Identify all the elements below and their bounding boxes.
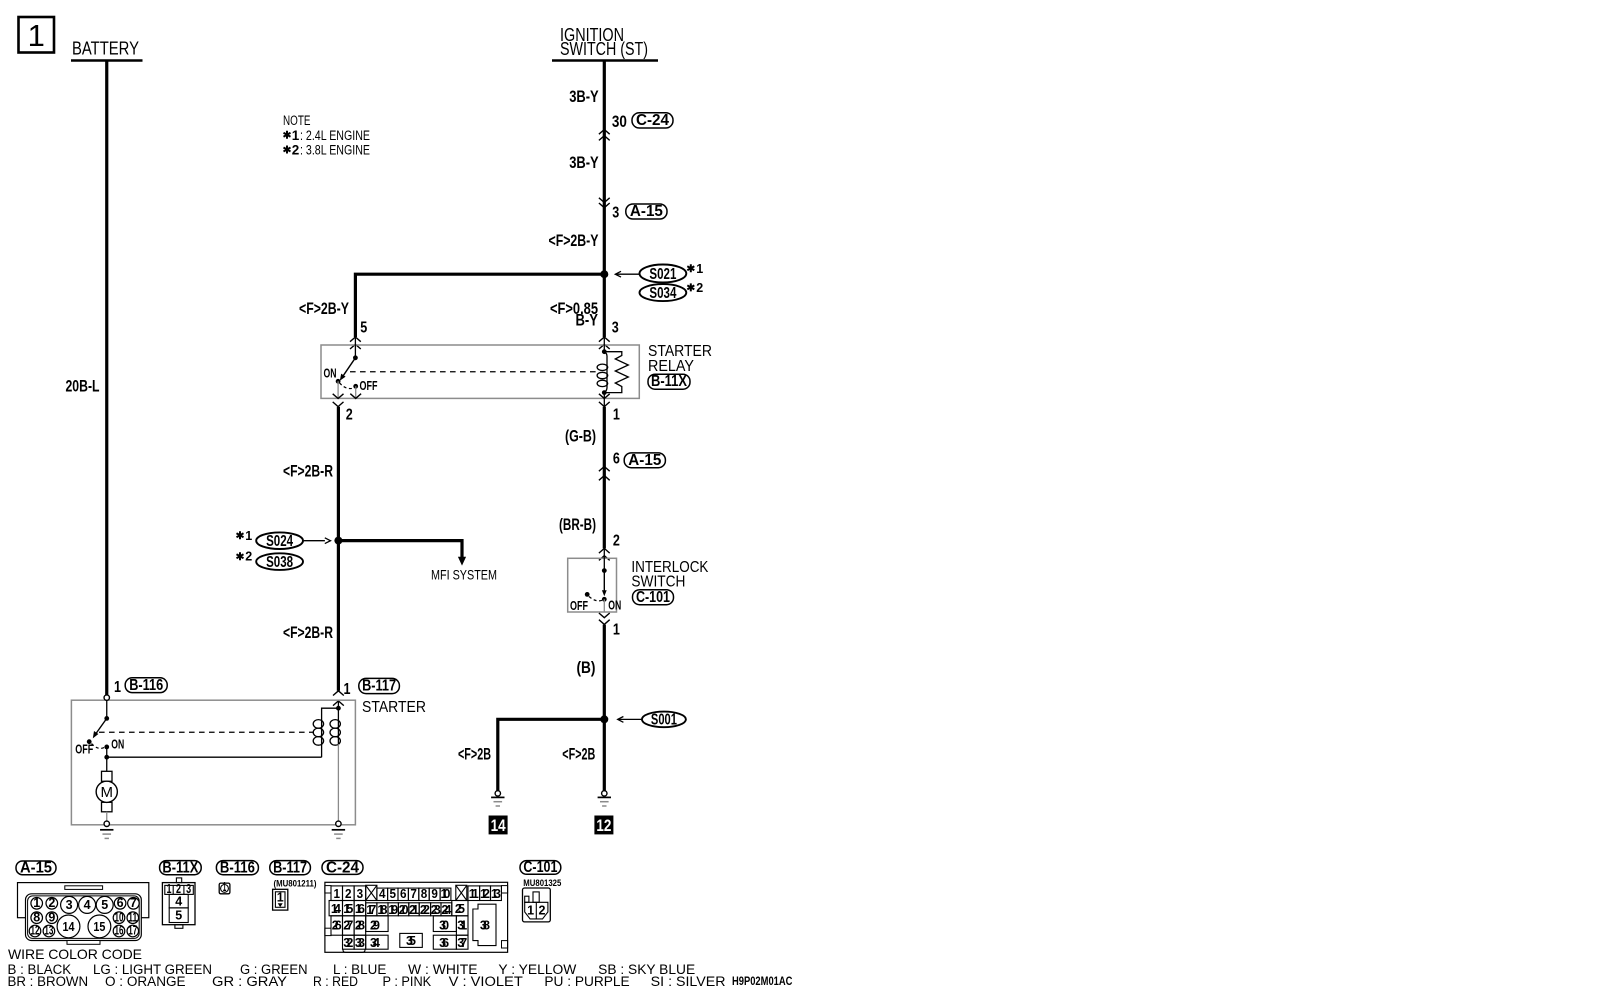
svg-text:1: 1 <box>613 406 620 423</box>
connector marks relay pin 2 <box>333 394 344 399</box>
svg-text:12: 12 <box>596 816 611 835</box>
wire ground branch left <box>498 719 605 790</box>
svg-text:16: 16 <box>355 902 365 916</box>
wire interlock to S001 <box>603 625 606 720</box>
svg-text:(B): (B) <box>577 658 596 677</box>
svg-text:3: 3 <box>612 320 619 337</box>
starter motor M <box>96 757 117 821</box>
connector marks relay pin 3 <box>599 337 610 342</box>
svg-text:37: 37 <box>457 936 467 950</box>
svg-text:23: 23 <box>431 903 441 917</box>
svg-text:MFI SYSTEM: MFI SYSTEM <box>431 568 497 583</box>
relay coil top node <box>603 337 605 352</box>
svg-text:16: 16 <box>115 924 124 938</box>
connector C-24 pill <box>632 112 673 129</box>
svg-text:2: 2 <box>345 887 352 901</box>
connector B-116 pill <box>125 677 167 694</box>
svg-text:17: 17 <box>366 903 376 917</box>
svg-text:C-101: C-101 <box>636 589 670 606</box>
wire branch to MFI system <box>338 541 462 557</box>
svg-text:24: 24 <box>441 903 451 917</box>
svg-text:PU : PURPLE: PU : PURPLE <box>544 974 629 989</box>
svg-text:1: 1 <box>245 529 252 543</box>
starter switch output node <box>106 747 108 757</box>
splice S024 <box>237 529 331 550</box>
svg-text:11: 11 <box>128 910 137 924</box>
connector marks C-24 inline <box>599 130 610 135</box>
svg-text:OFF: OFF <box>75 743 93 757</box>
svg-text:4: 4 <box>84 898 91 912</box>
svg-text:27: 27 <box>343 918 353 932</box>
svg-text:5: 5 <box>101 898 108 912</box>
svg-text:3: 3 <box>612 204 619 221</box>
connector B-116 pinout <box>216 859 258 894</box>
svg-text:1: 1 <box>613 622 620 639</box>
svg-text:S034: S034 <box>649 285 676 302</box>
svg-text:19: 19 <box>388 903 398 917</box>
relay resistor <box>604 352 628 393</box>
svg-text:: 3.8L ENGINE: : 3.8L ENGINE <box>300 143 370 158</box>
svg-text:B-11X: B-11X <box>162 859 198 876</box>
svg-text:OFF: OFF <box>570 599 588 613</box>
wire color code row 2 <box>8 974 793 989</box>
connector B-117 pill <box>359 678 400 695</box>
svg-text:(BR-B): (BR-B) <box>559 515 596 534</box>
connector marks A-15 inline 6 <box>599 467 610 472</box>
starter motor ground <box>104 821 109 826</box>
svg-text:R : RED: R : RED <box>313 974 358 989</box>
svg-text:6: 6 <box>117 896 124 910</box>
starter box <box>71 700 355 825</box>
relay pin 5 stub <box>354 337 356 358</box>
svg-text:B-11X: B-11X <box>651 373 687 390</box>
interlock input stub <box>603 548 605 570</box>
ground 14 <box>489 791 508 835</box>
svg-text:B-Y: B-Y <box>576 311 599 330</box>
splice S038 <box>237 550 304 571</box>
svg-text:13: 13 <box>491 887 501 901</box>
page number box 1 <box>19 17 55 53</box>
svg-text:(MU801211): (MU801211) <box>274 879 317 890</box>
node S021/S034 junction <box>600 270 608 278</box>
svg-text:3B-Y: 3B-Y <box>569 153 599 172</box>
svg-text:A-15: A-15 <box>20 859 52 876</box>
wire ground branch right <box>603 719 606 790</box>
svg-text:B-116: B-116 <box>220 859 255 876</box>
node S001 junction <box>600 715 608 723</box>
svg-text:WIRE COLOR CODE: WIRE COLOR CODE <box>8 946 142 962</box>
connector marks starter pin (B-117) <box>333 691 344 696</box>
svg-text:30: 30 <box>612 112 627 131</box>
svg-text:1: 1 <box>333 887 340 901</box>
starter dashed actuation line <box>99 731 314 733</box>
svg-text:14: 14 <box>331 902 341 916</box>
svg-text:(G-B): (G-B) <box>565 426 596 445</box>
battery label <box>71 39 143 61</box>
starter solenoid input node <box>337 701 339 708</box>
svg-text:2: 2 <box>48 896 55 910</box>
svg-text:1: 1 <box>696 262 703 276</box>
ground 12 <box>594 791 613 835</box>
svg-text:C-101: C-101 <box>523 859 557 876</box>
svg-text:<F>2B-R: <F>2B-R <box>283 462 333 481</box>
svg-text:12: 12 <box>480 887 490 901</box>
svg-text:2: 2 <box>292 143 300 158</box>
connector marks interlock pin 2 <box>599 548 610 553</box>
svg-text:31: 31 <box>457 918 467 932</box>
svg-text:15: 15 <box>93 920 105 934</box>
svg-text:M: M <box>101 784 114 801</box>
splice S001 <box>618 712 686 729</box>
svg-text:34: 34 <box>370 936 380 950</box>
splice S021 <box>615 262 703 283</box>
svg-text:2: 2 <box>613 532 620 549</box>
svg-text:B-116: B-116 <box>129 677 163 694</box>
relay coil bottom node <box>602 390 607 395</box>
svg-text:11: 11 <box>469 887 479 901</box>
svg-text:21: 21 <box>409 903 419 917</box>
connector C-24 pinout <box>322 859 508 952</box>
connector B-117 pinout <box>270 859 317 910</box>
svg-text:36: 36 <box>439 936 449 950</box>
interlock contact OFF <box>585 592 590 597</box>
svg-text:4: 4 <box>379 887 386 901</box>
svg-text:18: 18 <box>377 903 387 917</box>
relay dashed ON-OFF link <box>340 383 356 389</box>
svg-text:1: 1 <box>527 904 534 918</box>
svg-text:S021: S021 <box>649 266 676 283</box>
svg-text:<F>2B-Y: <F>2B-Y <box>299 299 349 318</box>
svg-text:H9P02M01AC: H9P02M01AC <box>732 974 793 988</box>
svg-text:10: 10 <box>441 887 451 901</box>
svg-text:29: 29 <box>370 918 380 932</box>
starter switch arm <box>96 718 107 733</box>
svg-text:P : PINK: P : PINK <box>383 974 432 989</box>
svg-text:O : ORANGE: O : ORANGE <box>105 974 186 989</box>
wire ignition ST to relay pin 3 <box>603 61 606 338</box>
wire color code row 1 <box>8 962 696 977</box>
svg-text:1: 1 <box>223 880 227 894</box>
svg-text:14: 14 <box>491 816 506 835</box>
svg-text:22: 22 <box>420 903 430 917</box>
wire battery 20B-L <box>105 61 108 696</box>
starter hold-in coil <box>330 708 340 821</box>
starter contact ON <box>104 745 109 750</box>
starter pull-in coil <box>313 708 338 757</box>
interlock contact ON <box>602 597 607 602</box>
svg-text:2: 2 <box>696 281 703 295</box>
svg-text:32: 32 <box>343 936 353 950</box>
svg-text:BATTERY: BATTERY <box>72 39 139 59</box>
interlock switch arm <box>603 571 605 591</box>
connector marks relay pin 5 <box>350 337 361 342</box>
svg-text:3: 3 <box>66 898 73 912</box>
wire branch to relay pin 5 <box>355 274 604 337</box>
svg-text:5: 5 <box>360 320 367 337</box>
relay switch arm <box>342 358 355 377</box>
svg-text:<F>2B-Y: <F>2B-Y <box>549 231 599 250</box>
svg-text:1: 1 <box>33 896 40 910</box>
svg-text:12: 12 <box>31 924 40 938</box>
svg-text:BR : BROWN: BR : BROWN <box>8 974 89 989</box>
svg-text:6: 6 <box>400 887 407 901</box>
interlock labels <box>631 559 709 606</box>
svg-text:8: 8 <box>421 887 428 901</box>
connector marks interlock pin 1 <box>599 613 610 618</box>
svg-text:ON: ON <box>324 366 337 380</box>
svg-text:<F>2B: <F>2B <box>562 744 595 763</box>
svg-text:SI : SILVER: SI : SILVER <box>651 974 726 989</box>
connector marks relay pin 1 <box>599 394 610 399</box>
svg-text:1: 1 <box>114 679 121 696</box>
svg-text:3B-Y: 3B-Y <box>569 87 599 106</box>
starter relay labels <box>648 343 712 390</box>
svg-text:: 2.4L ENGINE: : 2.4L ENGINE <box>300 128 370 143</box>
connector A-15 pill inline <box>624 452 665 469</box>
svg-text:GR : GRAY: GR : GRAY <box>212 974 287 989</box>
svg-text:B-117: B-117 <box>362 678 396 695</box>
svg-text:<F>2B-R: <F>2B-R <box>283 623 333 642</box>
svg-text:SWITCH: SWITCH <box>631 573 685 590</box>
wire relay pin1 to interlock <box>603 407 606 549</box>
svg-text:10: 10 <box>115 910 124 924</box>
svg-text:NOTE: NOTE <box>283 113 311 128</box>
svg-text:1: 1 <box>292 128 300 143</box>
svg-text:5: 5 <box>390 887 397 901</box>
interlock dashed OFF-ON link <box>589 597 602 601</box>
terminal B-116 on starter <box>104 695 109 700</box>
svg-text:S001: S001 <box>651 712 677 729</box>
svg-text:33: 33 <box>355 936 365 950</box>
svg-text:20B-L: 20B-L <box>66 377 100 396</box>
svg-text:8: 8 <box>33 910 40 924</box>
svg-text:35: 35 <box>406 934 416 948</box>
ignition switch (ST) label <box>552 25 658 61</box>
node S024/S038 junction <box>334 537 342 545</box>
svg-text:S038: S038 <box>266 554 293 571</box>
starter internal wire to coil <box>107 756 322 758</box>
svg-text:1: 1 <box>344 681 351 698</box>
connector C-101 pinout <box>520 859 562 922</box>
svg-text:V : VIOLET: V : VIOLET <box>449 974 523 989</box>
svg-text:9: 9 <box>431 887 438 901</box>
svg-text:S024: S024 <box>266 533 293 550</box>
svg-text:7: 7 <box>130 896 137 910</box>
svg-text:SWITCH (ST): SWITCH (ST) <box>560 39 648 59</box>
svg-text:ON: ON <box>608 599 621 613</box>
svg-text:A-15: A-15 <box>630 203 663 220</box>
svg-text:ON: ON <box>111 738 124 752</box>
relay contact ON <box>336 379 341 384</box>
svg-text:A-15: A-15 <box>628 452 661 469</box>
svg-text:20: 20 <box>399 903 409 917</box>
svg-text:3: 3 <box>357 887 364 901</box>
connector A-15 pill <box>626 203 667 220</box>
relay dashed actuation line <box>350 371 598 373</box>
svg-text:B-117: B-117 <box>273 859 307 876</box>
relay coil <box>597 352 608 393</box>
starter switch stub <box>106 700 108 718</box>
svg-text:4: 4 <box>175 895 182 909</box>
svg-text:13: 13 <box>44 924 53 938</box>
svg-text:6: 6 <box>613 450 620 467</box>
svg-text:OFF: OFF <box>360 379 378 393</box>
note block <box>283 113 370 158</box>
connector A-15 pinout <box>16 859 149 944</box>
connector marks A-15 inline <box>599 198 610 203</box>
starter dashed OFF-ON link <box>92 744 105 749</box>
svg-text:28: 28 <box>355 918 365 932</box>
starter contact OFF <box>87 739 92 744</box>
interlock switch box <box>568 558 617 612</box>
starter coil ground <box>336 821 341 826</box>
svg-text:5: 5 <box>175 909 182 923</box>
svg-text:30: 30 <box>439 918 449 932</box>
svg-text:14: 14 <box>63 920 75 934</box>
svg-text:C-24: C-24 <box>326 859 359 876</box>
svg-text:1: 1 <box>277 891 284 905</box>
starter relay box B-11X <box>321 345 639 398</box>
svg-text:9: 9 <box>48 910 55 924</box>
svg-text:7: 7 <box>410 887 417 901</box>
svg-text:C-24: C-24 <box>636 112 669 129</box>
svg-text:STARTER: STARTER <box>362 699 426 716</box>
svg-text:26: 26 <box>332 918 342 932</box>
svg-text:17: 17 <box>128 924 137 938</box>
svg-text:25: 25 <box>455 902 465 916</box>
relay contact OFF <box>353 384 358 389</box>
splice S034 <box>640 281 704 302</box>
svg-text:38: 38 <box>480 918 490 932</box>
svg-text:<F>2B: <F>2B <box>458 744 491 763</box>
connector B-11X pinout <box>160 859 202 928</box>
svg-text:1: 1 <box>28 18 45 53</box>
svg-text:15: 15 <box>343 902 353 916</box>
wire relay pin 2 to starter <box>337 407 340 691</box>
svg-text:2: 2 <box>346 406 353 423</box>
svg-text:2: 2 <box>539 904 546 918</box>
svg-text:2: 2 <box>245 550 252 564</box>
